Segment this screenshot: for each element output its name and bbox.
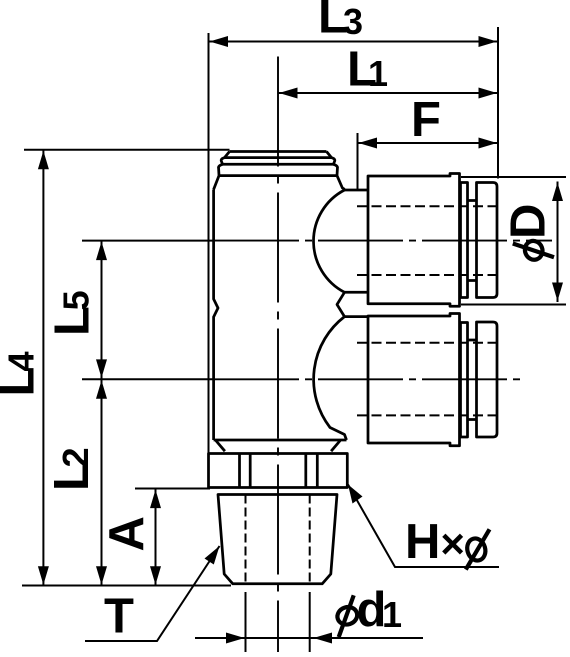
wire: phid1 right extension line bbox=[309, 592, 311, 652]
wire: L3 right extension line bbox=[497, 27, 499, 179]
arrow: Hxphi leader bbox=[348, 485, 363, 504]
label phi of phiD bbox=[513, 238, 554, 262]
hex nut H bbox=[209, 454, 348, 488]
arrow: L2 bottom bbox=[96, 566, 107, 585]
collar right chamfer bbox=[331, 441, 340, 452]
hex facet line 4 bbox=[316, 454, 319, 488]
wire: F left extension line bbox=[357, 133, 359, 190]
arrow: phiD top bbox=[552, 183, 563, 202]
wire: L1 dimension line bbox=[278, 92, 498, 94]
cap top edge bbox=[230, 150, 327, 153]
upper collet neck bottom bbox=[468, 279, 477, 282]
lower ledge bbox=[345, 315, 369, 318]
wire: L2 dimension line bbox=[101, 380, 103, 586]
wire: A top reference line bbox=[135, 488, 210, 490]
svg-text:3: 3 bbox=[343, 1, 363, 42]
upper-lower ledge bbox=[345, 291, 369, 294]
lower ball arc bbox=[314, 317, 347, 440]
wire: A dimension line bbox=[155, 489, 157, 585]
upper collet flange bbox=[477, 183, 498, 298]
arrow: L5 top bbox=[96, 242, 107, 261]
lower collet neck bottom bbox=[468, 418, 477, 421]
svg-text:4: 4 bbox=[1, 351, 42, 371]
svg-text:F: F bbox=[411, 93, 441, 147]
wire: L3 left extension line bbox=[208, 33, 210, 455]
collar top edge bbox=[214, 439, 347, 442]
hidden (dashed) lines bbox=[246, 206, 498, 583]
label L2 bbox=[45, 447, 99, 491]
wire: bottom reference line bbox=[22, 585, 231, 587]
upper bore hidden line bottom bbox=[357, 274, 497, 276]
wire: phiD dimension line bbox=[557, 182, 559, 303]
upper ledge bbox=[345, 189, 369, 192]
wire: L5 dimension line bbox=[101, 241, 103, 379]
hex facet line 2 bbox=[249, 454, 252, 488]
wire: T leader line bbox=[85, 546, 220, 641]
label L4 bbox=[0, 351, 45, 396]
part outlines bbox=[209, 152, 498, 584]
hex facet line 1 bbox=[238, 454, 241, 488]
upper collet neck top bbox=[468, 199, 477, 202]
lower bore hidden line top bbox=[357, 342, 497, 344]
lower collet neck top bbox=[468, 339, 477, 342]
wire: L4 dimension line bbox=[42, 150, 44, 585]
hex facet line 3 bbox=[304, 454, 307, 488]
wire: phid1 left extension line bbox=[245, 592, 247, 652]
wire: F dimension line bbox=[358, 142, 499, 144]
arrow: phid1 right pointing left bbox=[314, 633, 333, 644]
body left edge with notch bbox=[214, 190, 218, 441]
svg-text:2: 2 bbox=[55, 447, 96, 467]
svg-text:H×: H× bbox=[405, 515, 465, 569]
cap ridge line 3 bbox=[219, 174, 337, 177]
arrow: L1 left bbox=[279, 88, 298, 99]
lower port ring bbox=[461, 323, 468, 438]
arrow: phid1 left pointing right bbox=[226, 633, 245, 644]
arrow: L3 left bbox=[210, 36, 229, 47]
cap right profile bbox=[327, 152, 345, 191]
wire: L3 dimension line bbox=[209, 41, 499, 43]
arrow: A bottom bbox=[150, 566, 161, 585]
arrow: phiD bottom bbox=[552, 283, 563, 302]
lower port block bbox=[368, 314, 460, 446]
arrow: F right bbox=[479, 138, 498, 149]
cap left profile bbox=[214, 152, 230, 190]
right V notch bbox=[337, 292, 345, 316]
wire: top reference line L4 bbox=[24, 149, 230, 151]
wire: lower port centerline reference bbox=[82, 378, 214, 380]
arrow: L4 top bbox=[38, 151, 49, 170]
svg-text:5: 5 bbox=[56, 290, 97, 310]
lower bore hidden line bottom bbox=[357, 414, 497, 416]
wire: Hxphi leader line bbox=[348, 485, 499, 568]
label phi of Hxphi bbox=[465, 529, 490, 569]
arrow: L5 bottom bbox=[96, 359, 107, 378]
svg-text:1: 1 bbox=[382, 594, 402, 635]
upper port block bbox=[368, 174, 460, 307]
lower collet flange bbox=[477, 322, 498, 437]
thread T profile bbox=[218, 495, 337, 584]
upper ball arc bbox=[314, 190, 345, 292]
wire: phiD top extension line bbox=[461, 176, 566, 178]
arrow: A top bbox=[150, 490, 161, 509]
label L5 bbox=[46, 290, 100, 336]
collar left chamfer bbox=[216, 441, 225, 452]
upper bore hidden line top bbox=[357, 205, 497, 207]
svg-text:D: D bbox=[502, 204, 556, 239]
wire: upper port centerline reference bbox=[82, 240, 214, 242]
upper port ring bbox=[461, 183, 468, 298]
wire: lower port centerline bbox=[214, 378, 520, 380]
thread hidden line left bbox=[245, 495, 247, 584]
arrow: F left bbox=[359, 138, 378, 149]
cap ridge line 1 bbox=[225, 156, 332, 159]
arrow: L2 top bbox=[96, 380, 107, 399]
arrow: T leader bbox=[205, 546, 220, 565]
arrow: L4 bottom bbox=[38, 566, 49, 585]
wire: body vertical centerline bbox=[277, 57, 279, 653]
svg-text:1: 1 bbox=[368, 53, 388, 94]
thread hidden line right bbox=[309, 495, 311, 584]
arrow: L1 right bbox=[479, 88, 498, 99]
wire: upper port centerline bbox=[214, 240, 552, 242]
svg-text:A: A bbox=[100, 516, 154, 551]
label phi of phid1 bbox=[335, 595, 359, 637]
cap ridge line 2 bbox=[222, 163, 335, 166]
arrow: L3 right bbox=[479, 36, 498, 47]
wire: phiD bottom extension line bbox=[461, 304, 566, 306]
svg-text:T: T bbox=[104, 590, 134, 644]
wire: phid1 dimension line bbox=[195, 637, 423, 639]
